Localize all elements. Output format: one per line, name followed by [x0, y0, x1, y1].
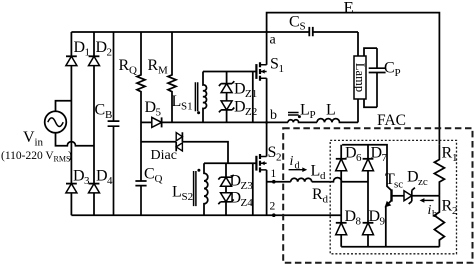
zener DZ3: [218, 175, 233, 180]
svg-text:Q: Q: [129, 65, 137, 77]
svg-text:R: R: [148, 57, 159, 74]
svg-text:2: 2: [276, 152, 282, 164]
svg-text:3: 3: [84, 175, 90, 187]
svg-text:b: b: [270, 108, 277, 123]
svg-text:D: D: [345, 145, 357, 162]
transformer LS2 core bars: [194, 171, 196, 206]
capacitor CS plates: [309, 27, 313, 36]
svg-text:(110-220 V: (110-220 V: [1, 150, 54, 162]
arrow id pointing right: [289, 169, 304, 171]
wire Tsc emitter to bottom line: [385, 206, 387, 247]
svg-text:C: C: [95, 102, 106, 119]
wire top bus rail (node a) with gap for Cs: [71, 31, 358, 33]
inductor Ld winding: [291, 178, 312, 181]
svg-text:d: d: [295, 161, 301, 172]
inductor LS1 winding: [203, 72, 207, 123]
svg-text:2: 2: [107, 47, 113, 59]
capacitor CP: [369, 48, 386, 107]
svg-text:zc: zc: [418, 176, 428, 188]
wire lamp top right pin to Cp: [364, 48, 377, 56]
svg-text:1: 1: [271, 168, 277, 180]
svg-text:C: C: [384, 60, 395, 77]
svg-text:i: i: [290, 154, 294, 169]
wire Tsc base to Dzc: [392, 195, 405, 197]
svg-text:L: L: [300, 102, 310, 119]
svg-text:a: a: [270, 33, 277, 48]
svg-text:Z1: Z1: [245, 88, 257, 100]
svg-text:D: D: [230, 173, 242, 190]
svg-text:D: D: [234, 81, 246, 98]
svg-text:P: P: [310, 109, 316, 121]
svg-text:R: R: [442, 198, 453, 215]
svg-text:9: 9: [380, 216, 386, 228]
wire bridge column 2 (D2/D4): [93, 32, 95, 215]
svg-text:): ): [68, 150, 72, 162]
svg-text:S1: S1: [181, 101, 193, 113]
transistor Tsc emitter with arrow: [386, 200, 392, 206]
Lp phase dot: [298, 115, 301, 118]
svg-text:1: 1: [85, 47, 91, 59]
zener DZ2: [221, 101, 232, 110]
svg-text:1: 1: [279, 63, 285, 75]
junction node 2 dot: [272, 213, 276, 217]
wire S2 drain to node b: [266, 122, 268, 156]
svg-text:C: C: [144, 166, 155, 183]
resistor R2: [434, 196, 444, 247]
wire lamp top lead: [357, 32, 359, 56]
LS1 phase dot: [197, 111, 200, 114]
LS2 phase dot: [197, 169, 200, 172]
diode D2: [89, 55, 100, 57]
svg-text:Q: Q: [155, 173, 163, 185]
AC source Vin circle: [45, 111, 67, 133]
svg-text:P: P: [395, 67, 401, 79]
wire D6/D8 column: [340, 145, 342, 247]
wire bridge column 1 (D1/D3): [70, 32, 72, 215]
svg-text:7: 7: [382, 152, 388, 164]
wire DZ1/DZ2 column: [226, 72, 228, 123]
svg-text:D: D: [345, 208, 357, 225]
svg-text:L: L: [311, 163, 321, 180]
zener Dzc: [404, 191, 412, 201]
diac symbol: [176, 133, 182, 141]
svg-text:d: d: [320, 170, 326, 182]
svg-text:R: R: [119, 57, 130, 74]
diode D4: [89, 183, 100, 185]
svg-text:D: D: [96, 168, 108, 185]
svg-text:L: L: [172, 184, 182, 201]
junction node 1 dot: [272, 180, 276, 184]
svg-text:L: L: [172, 93, 182, 110]
zener DZ1: [219, 81, 234, 86]
svg-text:D: D: [74, 39, 86, 56]
dotted box protection sub-circuit: [330, 140, 456, 253]
transformer LS1 core bars: [195, 82, 197, 111]
inductor LS2 winding: [204, 163, 208, 215]
svg-text:D: D: [407, 169, 419, 186]
svg-text:5: 5: [156, 107, 162, 119]
wire Ld to bridge with hop over D6 column: [312, 178, 368, 182]
svg-text:S2: S2: [182, 191, 194, 203]
wire gate loop right side S1: [252, 72, 254, 123]
mosfet S1: [256, 62, 266, 80]
wire S1 source to node b: [266, 78, 268, 122]
wire Dzc to R1/R2 node: [412, 195, 440, 197]
svg-text:M: M: [158, 65, 168, 77]
svg-text:D: D: [96, 39, 108, 56]
resistor RM: [168, 32, 176, 122]
inductor L winding: [317, 119, 358, 123]
wire node 1 to Ld: [267, 181, 291, 183]
wire D7/D9 column: [367, 145, 369, 247]
capacitor CB: [108, 32, 120, 215]
wire source bottom lead with hop over column 1: [56, 133, 95, 146]
AC source sine symbol: [48, 118, 63, 127]
wire lamp bottom right pin to Cp: [364, 99, 377, 107]
wire node Q to D5: [141, 121, 152, 123]
svg-text:R: R: [442, 145, 453, 162]
svg-text:D: D: [230, 190, 242, 207]
transistor Tsc base bar: [390, 189, 392, 201]
mosfet S2: [256, 154, 266, 172]
svg-text:in: in: [35, 137, 44, 149]
diode D3: [66, 183, 77, 185]
wire S1 drain to node a: [266, 32, 268, 65]
diode D1: [66, 55, 77, 57]
svg-text:Z2: Z2: [245, 106, 257, 118]
svg-text:D: D: [73, 168, 85, 185]
wire S1 gate drive line: [203, 71, 256, 73]
diode D8: [336, 222, 347, 224]
resistor R1: [434, 145, 444, 196]
svg-text:2: 2: [452, 205, 458, 217]
svg-text:6: 6: [356, 152, 362, 164]
svg-text:Lamp: Lamp: [353, 63, 367, 92]
diode D7: [363, 158, 374, 160]
svg-text:R: R: [312, 186, 323, 203]
svg-text:d: d: [323, 194, 329, 206]
wire S2 gate drive line: [204, 162, 256, 164]
svg-text:S: S: [300, 21, 306, 33]
svg-text:B: B: [105, 109, 112, 121]
inductor Lp winding: [288, 120, 317, 123]
diode D5: [152, 117, 162, 127]
svg-text:L: L: [326, 102, 336, 119]
wire gate loop right side S2: [252, 163, 254, 215]
svg-text:C: C: [289, 14, 300, 31]
wire lamp bottom left pin to node b line: [357, 99, 359, 122]
svg-text:4: 4: [107, 175, 113, 187]
svg-text:D: D: [145, 99, 157, 116]
svg-text:8: 8: [356, 216, 362, 228]
svg-text:D: D: [369, 208, 381, 225]
junction node b dot: [265, 121, 268, 124]
wire D5 cathode to node b rail: [162, 121, 288, 123]
zener DZ4: [221, 193, 232, 202]
wire bottom rail: [71, 214, 341, 216]
arrow ib pointing left: [423, 199, 434, 201]
wire source top lead: [56, 101, 72, 112]
svg-text:Diac: Diac: [151, 148, 177, 163]
diode D6: [336, 158, 347, 160]
svg-text:b: b: [432, 209, 437, 220]
wire FAC bridge DC+ top line to Tsc collector: [342, 145, 391, 191]
wire FAC bridge DC- bottom line: [341, 246, 439, 248]
svg-text:E: E: [344, 0, 354, 17]
diode D9: [363, 222, 374, 224]
resistor RQ: [137, 32, 145, 181]
svg-text:Z3: Z3: [241, 180, 254, 192]
svg-text:D: D: [371, 145, 383, 162]
wire S2 source down through node 1 to node 2 rail: [266, 170, 268, 215]
svg-text:1: 1: [452, 152, 458, 164]
capacitor CQ: [135, 181, 146, 215]
svg-text:i: i: [428, 203, 432, 218]
svg-text:FAC: FAC: [377, 112, 406, 129]
inductor Lp core bars: [288, 113, 299, 116]
svg-text:D: D: [234, 99, 246, 116]
wire DZ3/DZ4 column: [225, 163, 227, 215]
wire diac line from node Q to S2 gate line: [141, 142, 228, 163]
svg-text:Z4: Z4: [241, 197, 254, 209]
dashed box FAC: [283, 128, 472, 262]
lamp rectangle: [354, 56, 366, 99]
svg-text:V: V: [23, 129, 35, 146]
svg-text:2: 2: [270, 201, 276, 213]
wire E loop: node a up, across top, down right side: [267, 13, 440, 145]
svg-text:sc: sc: [394, 179, 403, 191]
